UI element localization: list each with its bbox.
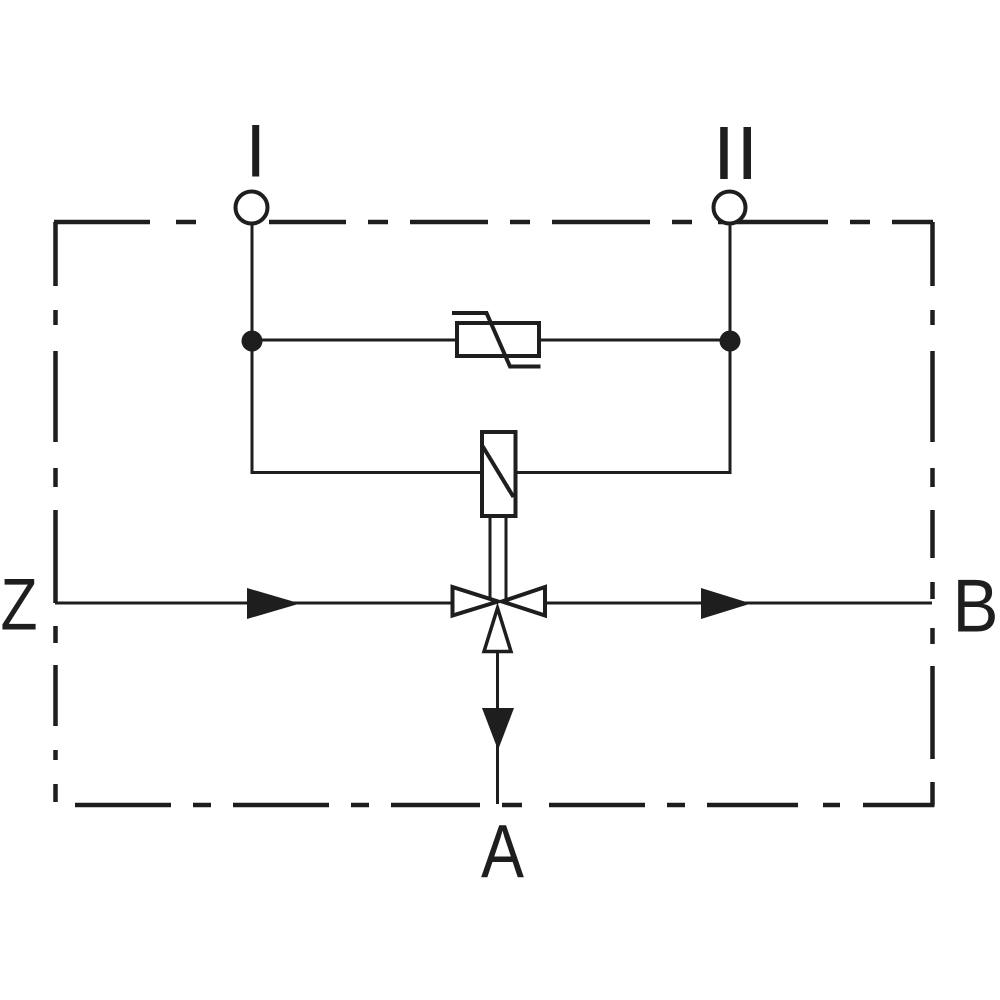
enclosure dash-dot border left edge (53, 222, 58, 802)
orifice D1 body rectangle (457, 323, 539, 356)
wire port II down to node 2 (729, 226, 732, 342)
orifice D2 body rectangle (vertical) (482, 432, 516, 516)
port II label (720, 127, 751, 179)
svg-text:A: A (481, 809, 524, 893)
shuttle valve right triangle (502, 587, 545, 616)
wire port I down to node 1 (251, 226, 254, 342)
orifice D2 diagonal (483, 446, 514, 497)
wire lower loop right (node 2 down and across) (516, 341, 731, 473)
flow arrow on A line (filled, pointing down) (482, 708, 514, 750)
wire lower loop left (node 1 down and across) (252, 341, 482, 473)
wire node 1 to orifice D1 (252, 339, 455, 342)
node 2 junction dot (720, 331, 741, 352)
port I label (252, 125, 259, 177)
svg-text:B: B (953, 564, 999, 648)
wire down to port A (496, 652, 499, 804)
enclosure dash-dot border bottom edge (75, 803, 935, 808)
shuttle valve left triangle (453, 587, 499, 616)
pilot stem double line (490, 516, 506, 600)
flow arrow on Z line (filled, pointing right) (247, 588, 300, 619)
port I circle (236, 192, 268, 224)
wire Z to shuttle valve (55, 602, 451, 605)
svg-text:Z: Z (1, 565, 38, 646)
enclosure dash-dot border right edge (930, 222, 935, 805)
check valve up-pointing triangle (484, 608, 511, 652)
enclosure dash-dot border top edge (54, 220, 933, 225)
port II circle (714, 192, 746, 224)
orifice D1 diaphragm z-line (452, 313, 541, 367)
wire shuttle valve to B (547, 602, 933, 605)
flow arrow on B line (filled, pointing right) (701, 588, 751, 619)
wire orifice D1 to node 2 (541, 339, 730, 342)
node 1 junction dot (242, 331, 263, 352)
